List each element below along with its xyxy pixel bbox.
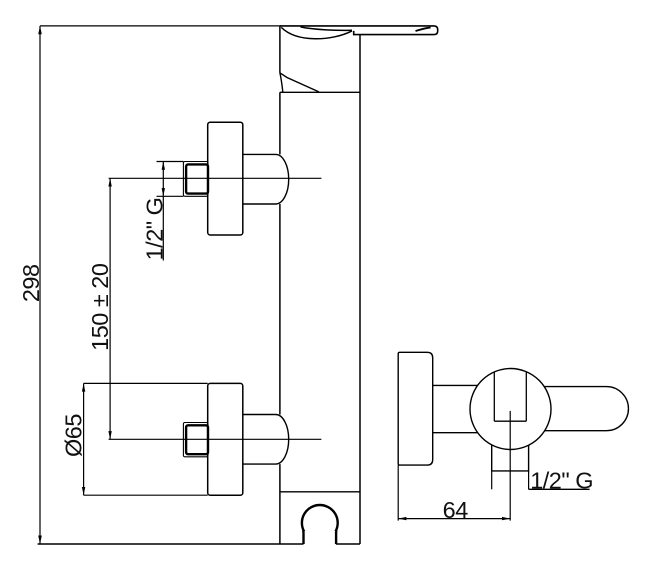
svg-text:Ø65: Ø65 [61, 414, 87, 457]
svg-text:150 ± 20: 150 ± 20 [87, 263, 113, 351]
svg-text:1/2" G: 1/2" G [141, 198, 167, 261]
svg-text:1/2" G: 1/2" G [530, 468, 593, 494]
svg-text:298: 298 [18, 264, 44, 302]
svg-text:64: 64 [443, 497, 469, 523]
